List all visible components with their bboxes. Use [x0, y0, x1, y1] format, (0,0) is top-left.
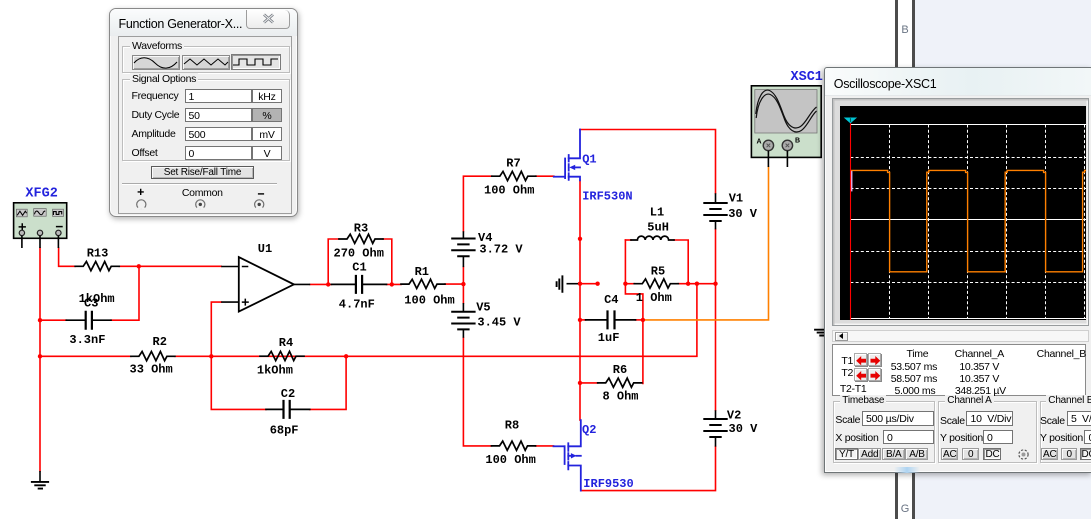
svg-text:1uF: 1uF — [598, 331, 620, 345]
svg-text:5uH: 5uH — [647, 220, 669, 234]
wire mid rail down to V2 top — [715, 284, 717, 411]
sheet border strip: left dark line — [895, 0, 898, 519]
wire R1 right to V4/V5 midpoint — [445, 283, 463, 285]
ground (bottom left) — [31, 471, 49, 489]
resistor R7 — [492, 171, 536, 180]
wire ground net to R2 left — [40, 355, 131, 357]
junction Q1 source pin — [578, 237, 582, 241]
wire L1/R5 left node jog down to C4 right and R6 right — [625, 284, 643, 384]
battery V2 — [715, 410, 717, 446]
Channel A group — [938, 401, 1037, 463]
wire V4 bottom to node — [462, 267, 464, 303]
function generator XFG2 icon — [14, 203, 67, 248]
svg-text:V2: V2 — [727, 409, 741, 423]
svg-text:V5: V5 — [476, 301, 490, 315]
Waveforms group — [122, 46, 290, 74]
svg-text:IRF9530: IRF9530 — [583, 477, 633, 491]
wire V2 bottom rail to Q2 source — [581, 447, 716, 491]
wire C4 left lead to output column — [580, 319, 586, 321]
wire R7 right to Q1 gate — [536, 175, 554, 177]
wire R8 right to Q2 gate — [536, 445, 554, 447]
resistor R2 — [131, 352, 175, 361]
wire output node up to R3 left — [328, 239, 339, 284]
sheet row letter B — [898, 24, 912, 36]
workspace outside sheet — [915, 0, 1091, 519]
Timebase group — [833, 401, 935, 463]
svg-text:Q2: Q2 — [582, 423, 596, 437]
ground (output node, rotated left) — [557, 275, 578, 292]
wire C1 right to R1 left — [387, 283, 402, 285]
junction R1 right / V4 V5 mid — [461, 282, 465, 286]
svg-text:C1: C1 — [352, 260, 366, 274]
inductor L1 — [631, 236, 674, 240]
capacitor C1 plates — [356, 275, 362, 294]
svg-text:33 Ohm: 33 Ohm — [130, 363, 173, 377]
svg-text:270 Ohm: 270 Ohm — [334, 247, 384, 261]
capacitor C4 leads — [586, 319, 636, 321]
svg-text:Q1: Q1 — [582, 153, 596, 167]
schematic labels — [25, 70, 823, 491]
svg-text:30 V: 30 V — [728, 207, 758, 221]
svg-text:C3: C3 — [84, 296, 98, 310]
svg-text:3.72 V: 3.72 V — [479, 242, 523, 256]
svg-text:100 Ohm: 100 Ohm — [404, 293, 454, 307]
junction C4 left on output column — [578, 318, 582, 322]
svg-text:1kOhm: 1kOhm — [257, 363, 293, 377]
svg-text:30 V: 30 V — [729, 422, 759, 436]
svg-text:A: A — [757, 139, 762, 146]
svg-text:1 Ohm: 1 Ohm — [636, 291, 672, 305]
svg-text:4.7nF: 4.7nF — [339, 298, 375, 312]
Signal Options group — [122, 79, 290, 161]
svg-text:3.3nF: 3.3nF — [69, 333, 105, 347]
transistor Q2 (IRF9530 p-mosfet) — [554, 420, 581, 491]
wire C3 right up to R13 output node — [111, 266, 139, 320]
wire L1 right down to R5 right node — [674, 240, 688, 284]
wire op-amp output node — [310, 283, 331, 285]
sheet border strip: right dark line — [912, 0, 915, 519]
inner raised panel — [118, 36, 293, 214]
wire C3 left lead to ground net — [40, 319, 66, 321]
wire XFG2 minus pin down and right to R13 — [59, 248, 76, 266]
junction R13 output node — [137, 264, 141, 268]
battery V5 — [462, 303, 464, 338]
wire top rail Q1 drain to V1 top — [580, 130, 716, 194]
wire C4 right lead to node — [636, 319, 643, 321]
junction L1 right on R5 right row — [686, 282, 690, 286]
waveform buttons — [132, 55, 180, 70]
wire scope probe A (orange) from C4 node to XSC1 terminal A — [643, 167, 769, 320]
svg-text:C4: C4 — [604, 293, 618, 307]
scrollbar strip — [832, 330, 1089, 342]
resistor R4 — [260, 351, 304, 360]
wire R5 right to mid rail — [678, 283, 715, 285]
wire L1 left down to R5 left node — [624, 240, 626, 284]
svg-text:V1: V1 — [729, 192, 743, 206]
channel B remnant — [850, 170, 852, 191]
svg-text:XFG2: XFG2 — [25, 186, 57, 201]
svg-text:R2: R2 — [153, 335, 167, 349]
wire ground stub at output node — [580, 283, 598, 285]
wire feedback row R2 right to corner below R5 right — [175, 284, 697, 357]
T1 cursor — [849, 119, 851, 320]
resistor R1 — [401, 279, 445, 288]
aero glow bottom — [894, 467, 920, 473]
wire R3 right down to C1 right node — [383, 239, 392, 284]
capacitor C3 leads — [66, 319, 111, 321]
svg-text:Common: Common — [181, 187, 222, 199]
svg-text:8 Ohm: 8 Ohm — [603, 389, 639, 403]
junction R4 right / C2 right — [344, 354, 348, 358]
svg-text:R6: R6 — [613, 363, 627, 377]
junction ground stub end — [595, 282, 599, 286]
resistor R3 — [339, 234, 383, 243]
junction op-amp output / R3 branch — [326, 282, 330, 286]
junction R2 left on ground net — [38, 354, 42, 358]
wire R7 left down to V4 top — [463, 176, 491, 231]
capacitor C1 leads — [331, 283, 386, 285]
junction C3 left on ground net — [38, 318, 42, 322]
junction L1/R5 left node — [623, 282, 627, 286]
junction R6 left on output column — [578, 381, 582, 385]
Set Rise/Fall Time button — [151, 166, 254, 180]
wire R5 left lead stub — [625, 283, 634, 285]
svg-text:R5: R5 — [651, 265, 665, 279]
wire half-bridge output column Q1 source to Q2 drain — [579, 180, 581, 420]
junction C4 right / scope tap — [641, 318, 645, 322]
svg-text:R8: R8 — [505, 419, 519, 433]
wire R6 left lead to output column — [580, 382, 598, 384]
sheet row letter G — [898, 503, 912, 515]
terminals — [110, 185, 298, 217]
junction ground tap on output column — [578, 282, 582, 286]
channel A square wave — [850, 170, 1086, 271]
readout panel — [832, 344, 1086, 396]
svg-text:L1: L1 — [650, 206, 664, 220]
svg-text:IRF530N: IRF530N — [582, 190, 632, 204]
svg-text:C2: C2 — [281, 387, 295, 401]
resistor R8 — [492, 441, 536, 450]
junction op-amp + input on feedback row — [209, 354, 213, 358]
capacitor C2 plates — [284, 400, 290, 419]
svg-text:R4: R4 — [279, 336, 293, 350]
capacitor C4 plates — [608, 310, 615, 329]
junction R3/C1 right — [390, 282, 394, 286]
svg-text:100 Ohm: 100 Ohm — [484, 184, 534, 198]
svg-text:XSC1: XSC1 — [791, 70, 823, 85]
capacitor C3 plates — [86, 311, 92, 330]
divider — [122, 183, 278, 185]
op-amp U1 — [221, 257, 310, 312]
wire V1 bottom to mid rail node — [715, 229, 717, 283]
svg-text:U1: U1 — [258, 242, 272, 256]
svg-text:B: B — [795, 138, 800, 145]
ground (partially hidden behind oscilloscope window) — [814, 330, 826, 336]
wire op-amp non-inverting input vertical to C2 row — [211, 302, 266, 409]
svg-text:R13: R13 — [87, 247, 109, 261]
svg-text:100 Ohm: 100 Ohm — [485, 453, 535, 467]
wire L1 left lead stub — [625, 239, 631, 241]
resistor R5 — [634, 279, 678, 288]
junction feedback tap on R5 right row — [695, 282, 699, 286]
transistor Q1 (IRF530N n-mosfet) — [554, 130, 580, 181]
junction dots — [38, 237, 718, 385]
wire C2 right up to R4 right node — [310, 356, 346, 409]
battery V1 — [715, 193, 717, 229]
wire XFG2 common pin to ground (vertical) — [39, 248, 41, 471]
Channel B group — [1040, 401, 1091, 463]
svg-text:R7: R7 — [506, 157, 520, 171]
svg-text:68pF: 68pF — [270, 424, 299, 438]
wire V5 bottom down and right to R8 left — [463, 338, 491, 446]
battery V4 — [462, 231, 464, 267]
resistor R13 — [75, 262, 119, 271]
svg-text:3.45 V: 3.45 V — [477, 316, 521, 330]
oscilloscope XSC1 icon — [751, 86, 821, 167]
capacitor C2 leads — [266, 408, 310, 410]
junction mid rail V1/V2 — [713, 282, 717, 286]
svg-text:R1: R1 — [415, 265, 429, 279]
screen bezel — [832, 98, 1089, 326]
sheet border strip: white band — [898, 0, 913, 519]
wire R13 right to op-amp inverting input — [119, 265, 221, 267]
resistor R6 — [598, 378, 642, 387]
svg-text:R3: R3 — [354, 221, 368, 235]
